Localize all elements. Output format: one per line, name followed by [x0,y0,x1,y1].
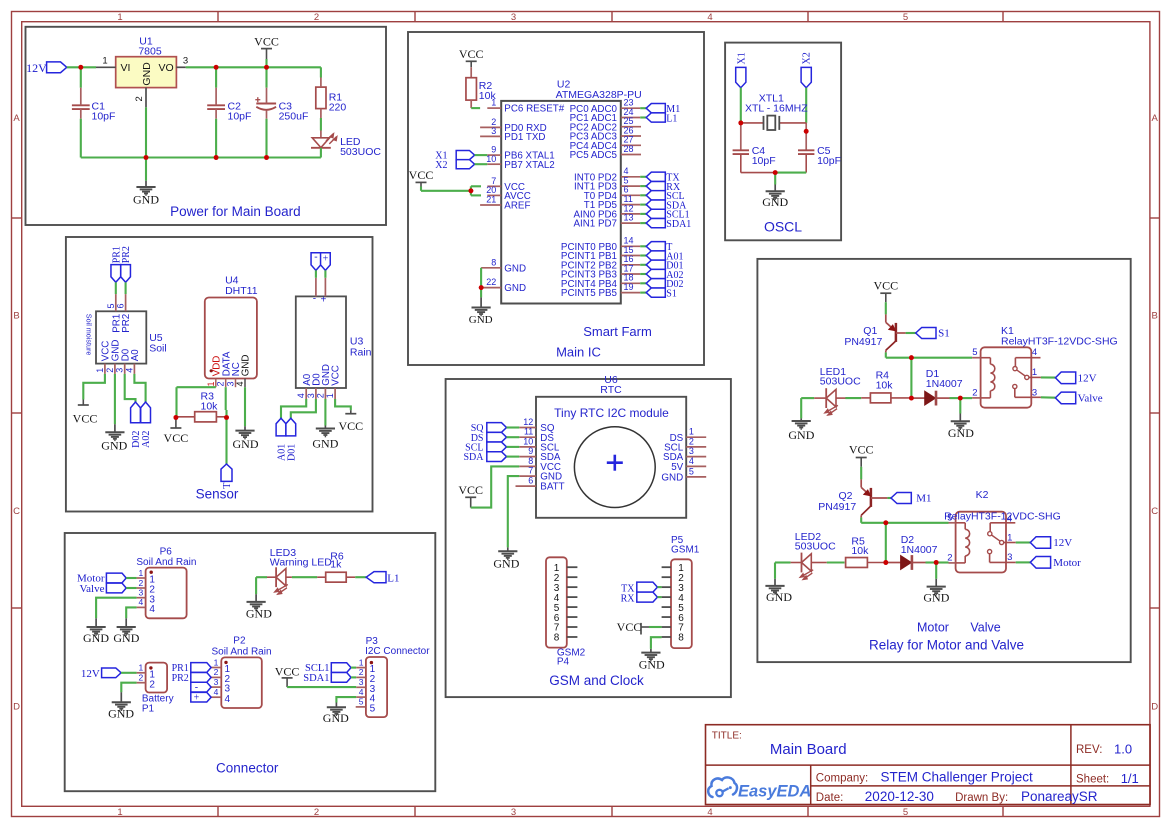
svg-text:Relay for Motor and Valve: Relay for Motor and Valve [869,638,1024,653]
svg-text:9: 9 [528,446,533,456]
svg-text:Motor: Motor [1053,557,1081,569]
wire D2 to K2 pin2 [936,561,948,563]
net flag L1 [366,572,399,585]
wire rain VCC [335,399,351,410]
svg-text:2: 2 [315,393,325,398]
svg-text:S1: S1 [938,328,950,340]
svg-text:SDA1: SDA1 [666,219,691,230]
svg-text:GSM and Clock: GSM and Clock [549,673,644,688]
net flag Valve (P6) [79,583,136,595]
section box: Main IC [408,32,704,365]
title block [706,725,1151,805]
wire RTC pin7 to GND [508,476,520,547]
svg-text:L1: L1 [666,113,677,124]
svg-text:GND: GND [241,355,252,377]
svg-text:OSCL: OSCL [764,218,802,234]
ground GND (U5) [101,424,127,452]
svg-text:VCC: VCC [331,365,342,386]
svg-text:12V: 12V [1078,373,1097,385]
wire U5 pin4 to A02 [134,374,145,402]
svg-text:SDA: SDA [463,452,484,463]
resistor R2 10k [466,78,497,108]
svg-text:2: 2 [105,368,115,373]
wire junction down to R4 row [910,358,912,398]
svg-text:P2: P2 [233,636,246,647]
net flag RX [640,181,681,192]
connector P1 Battery [137,663,174,715]
power symbol VCC (GSM1 pin7) [617,620,662,635]
svg-text:K2: K2 [976,489,989,501]
net flag T [640,242,672,253]
svg-text:VCC: VCC [617,620,642,634]
net flag plus (P2) [191,692,211,703]
net flag X2 (OSCL) [801,52,813,87]
svg-text:2: 2 [947,552,952,563]
wire P3 pin4 to GND [336,697,356,702]
net flag SDA1 (P3) [303,673,356,684]
svg-text:VCC: VCC [73,412,98,426]
svg-text:XTL - 16MHZ: XTL - 16MHZ [745,102,808,114]
net flag SDA (RTC) [463,452,519,463]
net flag PR1 (P2) [172,663,212,674]
wire LED3 to R6 [292,576,317,578]
svg-text:2: 2 [689,436,694,446]
wire DHT11 VDD to R3 [177,387,216,417]
svg-text:10: 10 [486,154,496,164]
svg-text:-: - [195,682,198,693]
net flag RX (GSM) [621,592,662,604]
svg-text:AIN1 PD7: AIN1 PD7 [573,219,617,230]
power symbol VCC (R3) [164,418,189,446]
junction [78,65,83,70]
section box: OSCL [725,43,841,241]
svg-text:GND: GND [323,711,349,725]
wire X2 to pin10 [475,163,488,165]
svg-text:Date:: Date: [816,792,844,804]
svg-text:4: 4 [138,597,143,607]
junction [909,396,914,401]
ground GND [133,107,159,206]
svg-text:1: 1 [206,381,216,386]
svg-text:1N4007: 1N4007 [901,544,938,556]
svg-text:GND: GND [661,473,683,484]
connector P4 GSM2 [546,557,586,667]
svg-text:AREF: AREF [504,201,530,212]
crystal XTL1 XTL-16MHZ [741,92,808,130]
wire DHT11 GND [244,387,246,426]
capacitor C1 10pF [72,88,116,123]
svg-text:1: 1 [102,56,107,67]
svg-text:Sheet:: Sheet: [1076,773,1109,785]
ground GND (LED1) [788,418,814,442]
svg-text:5: 5 [972,347,977,358]
svg-text:1: 1 [117,807,122,818]
svg-text:C: C [13,506,20,517]
capacitor C3 250uF (electrolytic) [255,67,308,157]
junction overlay dots [78,65,962,565]
capacitor C5 10pF [798,145,841,172]
svg-text:Soil And Rain: Soil And Rain [136,557,196,568]
svg-text:250uF: 250uF [279,111,309,123]
net flag M1 [640,104,680,115]
svg-text:8: 8 [554,633,560,644]
svg-text:GND: GND [113,631,139,645]
svg-text:REV:: REV: [1076,744,1102,756]
net flag A01 [640,251,683,262]
svg-text:Main IC: Main IC [556,345,601,360]
diode D1 1N4007 [911,368,962,406]
svg-text:Warning LED: Warning LED [270,557,332,569]
svg-text:Motor: Motor [917,621,949,635]
svg-text:2: 2 [314,12,319,23]
wire junction down to R5 row [885,523,887,563]
svg-text:4: 4 [1007,513,1012,524]
svg-text:4: 4 [149,604,155,615]
junction [883,560,888,565]
sensor U5 Soil (soil moisture) [85,294,167,374]
capacitor C2 10pF [207,67,251,157]
ground GND (LED3) [246,594,272,620]
svg-text:5: 5 [903,807,908,818]
wire P6 pin4 to GND [126,607,136,618]
svg-text:7: 7 [528,466,533,476]
wire LED3 to GND [255,577,257,594]
svg-text:2: 2 [138,578,143,588]
svg-text:GND: GND [469,314,493,326]
svg-text:RTC: RTC [600,384,622,396]
svg-text:12V: 12V [26,61,47,75]
svg-text:Power for Main Board: Power for Main Board [170,204,301,219]
net flag PR1 (sensor) [111,246,122,282]
ground GND (RTC) [493,547,519,570]
svg-text:2: 2 [216,381,226,386]
wire LED2 to R5 [827,561,845,563]
svg-text:22: 22 [486,277,496,287]
relay K2 RelayHT3F-12VDC-SHG [944,489,1061,572]
svg-text:+: + [194,693,200,704]
svg-text:Q1: Q1 [863,325,877,337]
svg-text:P4: P4 [557,657,570,668]
net flag 12V (battery) [81,668,137,680]
ground GND (P3) [323,703,349,725]
svg-text:1k: 1k [330,559,342,571]
wire R6 to L1 [355,576,366,578]
svg-text:8: 8 [678,633,684,644]
net flag X1 (OSCL) [736,52,748,87]
net flag A02 [640,269,683,280]
wire C1 branch [80,67,82,87]
svg-text:3: 3 [306,393,316,398]
svg-text:10k: 10k [876,380,894,392]
net flag Motor (K2) [1016,557,1081,570]
svg-text:GND: GND [504,263,526,274]
svg-text:4: 4 [707,807,712,818]
svg-text:8: 8 [491,257,496,267]
net flag minus (P2) [191,682,211,693]
power symbol VCC (Q1) [873,279,898,315]
svg-text:1: 1 [95,368,105,373]
wire DATA to T flag [225,387,228,464]
svg-text:GND: GND [141,62,153,86]
net flag Valve (K1) [1041,392,1103,405]
net flag SDA1 [640,218,691,229]
svg-text:D: D [13,702,20,713]
svg-text:5: 5 [903,12,908,23]
net flag minus (rain) [311,252,321,271]
svg-text:20: 20 [486,185,496,195]
wire U5 pin3 to D02 [125,374,136,402]
svg-text:10pF: 10pF [92,111,116,123]
net flag A02 [141,402,152,448]
svg-text:10k: 10k [201,400,219,412]
regulator U1 7805 [96,35,188,107]
svg-text:220: 220 [329,102,347,114]
section box: Relay for Motor and Valve [757,259,1130,662]
net flag SCL1 (P3) [305,663,356,674]
svg-text:P1: P1 [142,704,155,715]
ground GND (LED2) [765,579,792,604]
net flag SCL (RTC) [465,442,519,453]
svg-text:GND: GND [923,590,949,604]
svg-text:503UOC: 503UOC [340,146,381,158]
power symbol VCC (AVCC) [409,168,434,191]
wire LED1 to R4 [845,397,861,399]
junction [883,520,888,525]
svg-text:12V: 12V [81,668,100,680]
svg-text:3: 3 [183,56,188,67]
LED1 power LED 503UOC [311,131,381,158]
svg-text:X2: X2 [435,160,447,171]
wire VCC output rail [186,67,321,77]
net flag PR2 (P2) [172,673,212,684]
svg-text:C: C [1151,506,1158,517]
net flag D01 [286,418,297,461]
svg-text:VO: VO [159,62,174,74]
svg-text:4: 4 [1032,347,1037,358]
connector P2 Soil And Rain [211,636,271,708]
svg-text:6: 6 [528,476,533,486]
ground GND (D1) [948,398,974,440]
ground GND (P6 pin3) [83,618,109,645]
svg-text:503UOC: 503UOC [795,541,836,553]
wire Q2 collector to relay K2 [861,517,948,522]
svg-text:6: 6 [116,303,126,308]
net flag PR2 (sensor) [121,246,132,282]
svg-text:Drawn By:: Drawn By: [955,792,1008,804]
svg-text:1: 1 [117,12,122,23]
svg-text:4: 4 [707,12,712,23]
svg-text:4: 4 [359,687,364,697]
wire PR1 to U5 pin5 [115,282,117,294]
wire X1 to crystal [740,88,742,151]
svg-text:D01: D01 [286,444,297,461]
svg-text:1: 1 [138,663,143,673]
net flag SQ (RTC) [471,423,520,434]
power symbol VCC (P3) [275,665,300,688]
svg-text:VCC: VCC [338,419,363,433]
junction [934,560,939,565]
svg-text:PN4917: PN4917 [844,336,882,348]
svg-text:19: 19 [624,282,634,292]
MCU U2 ATMEGA328P-PU [480,78,642,303]
svg-text:2: 2 [149,679,155,690]
svg-text:D: D [1151,702,1158,713]
section box: GSM and Clock [446,379,731,697]
net flag D01 [640,260,683,271]
LED1 503UOC [814,366,861,416]
junction [773,170,778,175]
net flag 12V (K2) [1016,537,1073,550]
svg-text:PCINT5 PB5: PCINT5 PB5 [561,288,618,299]
svg-text:5: 5 [106,303,116,308]
wire U5 pin2 to GND [114,374,116,424]
wire PR2 to U5 pin6 [125,282,127,294]
ground GND (P6 pin4) [113,618,139,645]
svg-text:X2: X2 [802,52,813,64]
svg-text:A0: A0 [130,349,141,362]
svg-text:1: 1 [138,568,143,578]
svg-text:RelayHT3F-12VDC-SHG: RelayHT3F-12VDC-SHG [1001,336,1118,348]
svg-text:B: B [1152,311,1158,322]
svg-text:X1: X1 [736,52,747,64]
transistor Q2 PN4917 [818,479,887,517]
power symbol VCC [254,34,279,67]
sensor U4 DHT11 [205,274,258,387]
svg-text:Company:: Company: [816,773,868,785]
svg-text:5: 5 [947,512,952,523]
svg-text:SDA1: SDA1 [303,673,329,684]
svg-text:1: 1 [214,657,219,667]
LED2 503UOC [791,531,836,580]
svg-text:12V: 12V [1053,537,1072,549]
svg-text:5: 5 [689,466,694,476]
svg-text:503UOC: 503UOC [820,375,861,387]
svg-text:2020-12-30: 2020-12-30 [865,789,934,804]
svg-text:VCC: VCC [873,279,898,293]
net flag S1 [640,288,677,299]
svg-text:3: 3 [115,368,125,373]
svg-text:11: 11 [524,427,533,437]
svg-text:VCC: VCC [164,431,189,445]
net flag D02 [131,402,142,448]
resistor R5 10k [846,536,886,568]
svg-text:3: 3 [359,677,364,687]
net flag SDA [640,200,687,211]
capacitor C4 10pF [733,145,776,172]
wire U5 pin1 to VCC [83,374,105,400]
net flag 12V [26,61,67,75]
svg-text:3: 3 [491,126,496,136]
junction [738,121,808,134]
svg-text:2: 2 [314,807,319,818]
svg-text:VCC: VCC [458,483,483,497]
svg-text:B: B [13,311,19,322]
svg-text:GND: GND [493,557,519,571]
svg-text:GND: GND [766,590,792,604]
svg-text:4: 4 [296,393,306,398]
svg-text:M1: M1 [916,493,931,505]
wire P6 pin3 to GND [96,598,137,619]
svg-text:GND: GND [233,437,259,451]
svg-text:1/1: 1/1 [1121,771,1139,786]
net flag D02 [640,279,683,290]
svg-text:GND: GND [788,428,814,442]
svg-text:-: - [314,252,317,263]
svg-text:GSM1: GSM1 [671,544,700,555]
svg-text:4: 4 [214,687,219,697]
svg-text:2: 2 [359,667,364,677]
ground GND (U4) [233,426,259,451]
svg-text:PonareaySR: PonareaySR [1021,789,1098,804]
RTC module U6 [516,374,707,518]
svg-text:T: T [222,483,233,489]
wire Q1 collector to relay K1 [886,352,972,357]
ground GND (D2) [923,563,949,605]
wire P1 pin2 to GND [121,683,136,693]
ground GND (OSCL) [762,173,788,210]
resistor R3 10k [176,391,227,422]
wire rain A0 to A01 [281,399,306,418]
wire X2 to crystal [805,88,807,151]
wire rain top pins [316,270,326,277]
svg-text:5: 5 [370,704,376,715]
section box: Connector [65,533,436,791]
svg-text:1: 1 [325,393,335,398]
net flag SCL1 [640,209,689,220]
power symbol VCC (U3) [338,410,363,433]
svg-text:1: 1 [491,98,496,108]
svg-text:28: 28 [624,144,634,154]
net flag T [221,464,233,489]
ground GND (P1) [108,692,134,720]
net flag plus (rain) [321,253,331,271]
junction [214,65,269,70]
svg-text:Valve: Valve [970,621,1000,635]
junction [958,396,963,401]
svg-text:10pF: 10pF [817,155,841,167]
net flag Motor (P6) [77,573,137,585]
svg-text:4: 4 [225,694,231,705]
junction [469,188,474,193]
ground GND (U3) [312,426,338,451]
power symbol VCC (U5) [73,400,98,426]
wire ground rail [81,119,321,158]
power symbol VCC (RTC) [458,483,483,508]
svg-text:I2C Connector: I2C Connector [365,646,430,657]
svg-text:GND: GND [504,283,526,294]
svg-text:A: A [13,113,20,124]
svg-text:GND: GND [762,195,788,209]
svg-text:Main Board: Main Board [770,741,847,758]
power symbol VCC (Q2) [849,443,874,480]
junction [144,155,269,160]
svg-text:2: 2 [214,667,219,677]
junction [174,415,229,420]
svg-text:VI: VI [121,62,131,74]
svg-text:4: 4 [124,368,134,373]
diode D2 1N4007 [886,534,938,570]
svg-text:RelayHT3F-12VDC-SHG: RelayHT3F-12VDC-SHG [944,511,1061,523]
wire LED2 left to GND [775,563,791,579]
resistor R6 1k [317,551,355,583]
relay K1 RelayHT3F-12VDC-SHG [972,325,1118,408]
svg-text:RX: RX [621,593,636,604]
LED3 Warning LED [256,547,332,594]
junction [479,285,484,290]
svg-text:PN4917: PN4917 [818,501,856,513]
wire GSM1 pin8 to GND [651,637,662,649]
svg-text:A02: A02 [141,431,152,448]
